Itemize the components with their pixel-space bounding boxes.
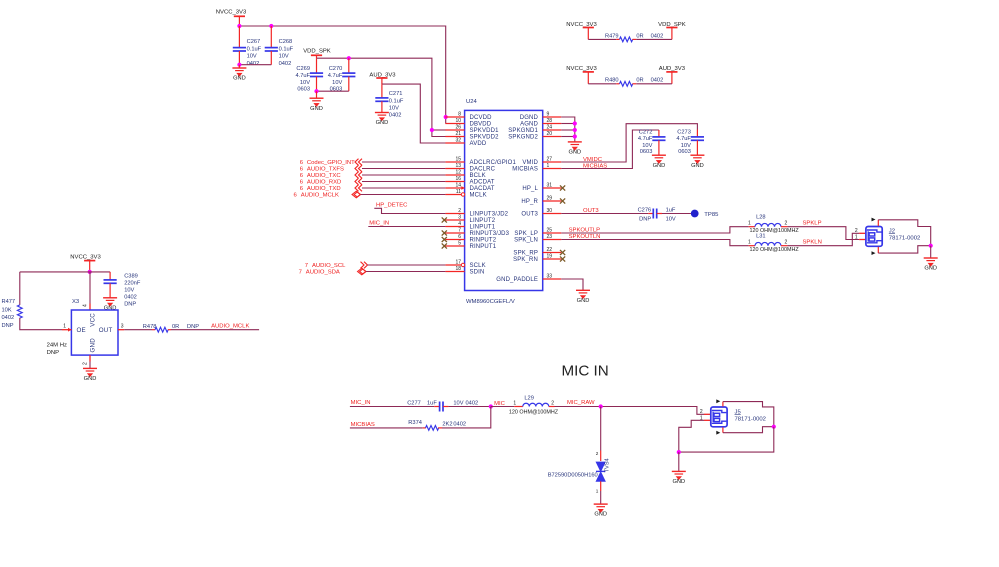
svg-text:8: 8 <box>458 112 461 118</box>
wire TVS4 to ground <box>600 481 602 491</box>
svg-text:0402: 0402 <box>651 33 664 39</box>
J5 shield pin bottom <box>722 427 724 432</box>
svg-text:GND: GND <box>376 120 389 126</box>
ground below X3 <box>89 362 91 369</box>
wire SPKVDD1 tap <box>432 129 446 131</box>
wire J2 shield top to gnd <box>878 220 930 246</box>
U24 pin 5 RINPUT1 <box>445 245 464 247</box>
resistor R478 (0R DNP) <box>124 329 152 331</box>
wire AUD_3V3 to U24 pin 32 <box>382 84 446 143</box>
svg-text:SPKGND1: SPKGND1 <box>508 128 538 134</box>
junction at C267 top <box>237 24 241 28</box>
svg-text:1: 1 <box>513 401 516 407</box>
U24 pin 1 MICBIAS <box>543 168 562 170</box>
J5 shield pin top <box>722 402 724 407</box>
svg-text:R479: R479 <box>605 33 619 39</box>
wire AUDIO_TXC to pin 12 <box>362 174 445 176</box>
junction MIC ground node <box>677 450 681 454</box>
svg-text:120 OHM@100MHZ: 120 OHM@100MHZ <box>750 247 800 253</box>
U24 pin 12 BCLK <box>445 174 464 176</box>
svg-text:GND: GND <box>924 266 937 272</box>
svg-text:R478: R478 <box>143 324 157 330</box>
svg-text:3: 3 <box>121 324 124 330</box>
svg-text:U24: U24 <box>466 99 478 105</box>
wire SPKLP to J2 pin 1 <box>787 227 859 240</box>
svg-text:4.7uF: 4.7uF <box>676 136 691 142</box>
svg-text:GND: GND <box>594 512 607 518</box>
svg-text:SPKVDD1: SPKVDD1 <box>470 128 500 134</box>
U24 pin 6 RINPUT2 <box>445 239 464 241</box>
ground below C267 <box>238 65 240 68</box>
junction at DCVDD pin 8 <box>444 115 448 119</box>
ground below C273 <box>690 155 704 163</box>
svg-text:AUDIO_TXD: AUDIO_TXD <box>307 186 341 192</box>
svg-text:AUDIO_RXD: AUDIO_RXD <box>307 180 341 186</box>
junction J2 shield <box>929 244 933 248</box>
U24 pin 16 ADCDAT <box>445 181 464 183</box>
svg-text:AUDIO_MCLK: AUDIO_MCLK <box>211 323 249 329</box>
junction NVCC_3V3 at X3 VCC <box>88 270 92 274</box>
svg-text:27: 27 <box>547 157 553 163</box>
wire GND_PADDLE to ground <box>561 279 583 290</box>
J2 shield pin top <box>877 220 879 226</box>
svg-text:0402: 0402 <box>389 112 402 118</box>
svg-text:0402: 0402 <box>247 61 260 67</box>
capacitor C269 <box>316 58 318 73</box>
svg-text:AUDIO_SDA: AUDIO_SDA <box>306 270 340 276</box>
svg-text:14: 14 <box>455 183 461 189</box>
U24 pin 26 SPKVDD1 <box>445 129 464 131</box>
svg-text:1: 1 <box>596 489 599 494</box>
wire MIC_IN to pin 4 <box>368 226 445 228</box>
svg-text:33: 33 <box>547 274 553 280</box>
svg-text:6: 6 <box>458 234 461 240</box>
svg-text:10V: 10V <box>279 54 289 60</box>
svg-text:0402: 0402 <box>2 315 15 321</box>
X3 pin 2 GND stub <box>89 355 91 361</box>
svg-text:GND: GND <box>90 338 97 353</box>
svg-text:0.1uF: 0.1uF <box>279 46 294 52</box>
wire VMID to C273 <box>561 124 697 162</box>
svg-text:NVCC_3V3: NVCC_3V3 <box>216 10 247 16</box>
svg-text:C276: C276 <box>638 207 652 213</box>
oscillator X3 body <box>71 310 118 355</box>
op-amp U1 -- IC U24 WM8960 body <box>465 110 543 290</box>
svg-text:2K2: 2K2 <box>442 422 452 428</box>
svg-text:19: 19 <box>547 254 553 260</box>
wire MICBIAS to R374 <box>350 427 423 429</box>
svg-text:0R: 0R <box>636 78 643 84</box>
wire R374 to MIC node <box>442 407 491 428</box>
svg-text:4.7uF: 4.7uF <box>638 136 653 142</box>
wire C277 to MIC node <box>448 406 490 408</box>
wire OUT3 to C276 <box>561 213 648 215</box>
svg-text:7: 7 <box>305 263 308 269</box>
svg-text:4: 4 <box>83 304 89 307</box>
resistor R479 <box>588 38 616 40</box>
svg-text:HP_DETEC: HP_DETEC <box>376 202 408 208</box>
svg-text:0603: 0603 <box>297 86 310 92</box>
svg-text:RINPUT3/JD3: RINPUT3/JD3 <box>470 231 510 237</box>
junction SPKGND2 <box>573 134 577 138</box>
U24 pin 17 SCLK <box>445 264 464 266</box>
U24 pin 2 LINPUT3/JD2 <box>445 213 464 215</box>
svg-text:L28: L28 <box>756 215 766 221</box>
capacitor C267 <box>238 26 240 48</box>
svg-text:1uF: 1uF <box>666 207 676 213</box>
svg-text:7: 7 <box>299 270 302 276</box>
wire X3 VCC pin <box>89 272 91 304</box>
svg-text:SPKLP: SPKLP <box>803 221 822 227</box>
U24 pin 30 OUT3 <box>543 213 562 215</box>
svg-text:0603: 0603 <box>678 149 691 155</box>
junction J5 shield <box>772 425 776 429</box>
svg-text:DNP: DNP <box>639 217 651 223</box>
ground below C271 <box>375 113 389 121</box>
wire down to TVS4 <box>600 407 602 451</box>
wire Codec_GPIO_INT to pin 15 <box>362 161 445 163</box>
svg-text:30: 30 <box>547 208 553 214</box>
resistor R480 <box>588 83 616 85</box>
wire AUDIO_MCLK to pin 11 <box>361 194 446 196</box>
svg-text:0R: 0R <box>636 33 643 39</box>
svg-text:R477: R477 <box>2 299 16 305</box>
svg-text:0402: 0402 <box>453 422 466 428</box>
svg-text:1: 1 <box>748 240 751 246</box>
junction at C269 bottom <box>314 89 318 93</box>
ground for GND_PADDLE <box>576 290 590 298</box>
svg-text:10V: 10V <box>124 287 134 293</box>
wire AUDIO_TXD to pin 14 <box>362 187 445 189</box>
svg-text:120 OHM@100MHZ: 120 OHM@100MHZ <box>509 410 559 416</box>
svg-text:HP_L: HP_L <box>522 186 538 192</box>
junction at SPKVDD1 tap <box>430 128 434 132</box>
U24 pin 27 VMID <box>543 161 562 163</box>
svg-text:2: 2 <box>83 362 89 365</box>
svg-text:RINPUT2: RINPUT2 <box>470 238 497 244</box>
capacitor C273 <box>696 130 698 137</box>
connector J5 78171-0002 <box>704 413 710 415</box>
U24 pin 32 AVDD <box>445 142 464 144</box>
svg-text:10V: 10V <box>389 105 399 111</box>
svg-text:AUDIO_TXFS: AUDIO_TXFS <box>307 167 344 173</box>
svg-text:23: 23 <box>547 234 553 240</box>
U24 pin 10 DBVDD <box>445 123 464 125</box>
svg-text:SPK_LP: SPK_LP <box>514 231 538 237</box>
U24 pin 19 SPK_RN <box>543 258 562 260</box>
svg-text:7: 7 <box>458 228 461 234</box>
svg-text:17: 17 <box>455 260 461 266</box>
svg-text:SDIN: SDIN <box>470 270 485 276</box>
svg-text:GND: GND <box>672 479 685 485</box>
wire shield return to ground node <box>679 427 774 452</box>
svg-text:11: 11 <box>456 189 461 195</box>
svg-text:DNP: DNP <box>187 324 199 330</box>
U24 pin 22 SPK_RP <box>543 252 562 254</box>
svg-text:GND: GND <box>577 298 590 304</box>
junction SPKGND1 <box>573 128 577 132</box>
svg-text:5: 5 <box>458 241 461 247</box>
svg-text:C273: C273 <box>677 129 691 135</box>
svg-text:AUDIO_SCL: AUDIO_SCL <box>312 263 346 269</box>
svg-text:SPKLN: SPKLN <box>803 240 822 246</box>
svg-text:10: 10 <box>455 118 461 124</box>
svg-text:DBVDD: DBVDD <box>470 122 492 128</box>
svg-text:AUDIO_MCLK: AUDIO_MCLK <box>301 193 339 199</box>
svg-text:10V: 10V <box>681 143 691 149</box>
svg-text:DACLRC: DACLRC <box>470 167 496 173</box>
svg-text:VMID: VMID <box>522 160 538 166</box>
wire MIC_RAW to J5 <box>555 407 705 415</box>
svg-text:LINPUT3/JD2: LINPUT3/JD2 <box>470 212 509 218</box>
svg-text:TVS4: TVS4 <box>604 458 610 472</box>
U24 pin 28 AGND <box>543 123 562 125</box>
wire MICBIAS to C272 <box>561 130 659 169</box>
U24 pin 31 HP_L <box>543 187 562 189</box>
wire SPKOUTLP to L28 <box>561 227 748 233</box>
svg-text:SPKVDD2: SPKVDD2 <box>470 135 500 141</box>
red dot pin 14 <box>461 186 464 190</box>
svg-text:J5: J5 <box>735 409 742 415</box>
svg-text:GND: GND <box>568 150 581 156</box>
svg-text:MCLK: MCLK <box>470 193 487 199</box>
wire NVCC_3V3 rail to U24 pin 8/10 <box>239 26 445 124</box>
ground for J5 <box>678 452 680 471</box>
ground below C389 <box>103 298 117 306</box>
svg-text:ADCDAT: ADCDAT <box>470 180 495 186</box>
inductor L28 <box>749 226 755 228</box>
svg-text:2: 2 <box>458 208 461 214</box>
wire J2 shield bottom to gnd <box>878 246 930 253</box>
svg-text:2: 2 <box>700 409 703 415</box>
TVS diode TVS4 B72590D0050H160 <box>596 462 605 481</box>
wire NVCC rail at X3 <box>20 271 110 273</box>
svg-text:C267: C267 <box>247 39 261 45</box>
svg-text:26: 26 <box>455 125 461 131</box>
svg-text:1: 1 <box>748 221 751 227</box>
clock circle pin 11 MCLK <box>461 193 464 196</box>
svg-text:R374: R374 <box>408 420 422 426</box>
svg-text:28: 28 <box>547 118 553 124</box>
capacitor C272 <box>658 130 660 137</box>
svg-text:22: 22 <box>547 247 553 253</box>
junction at C270 top <box>347 56 351 60</box>
wire J5 shield bottom to junction <box>723 427 774 433</box>
svg-text:GND: GND <box>233 76 246 82</box>
svg-text:SPK_RP: SPK_RP <box>513 251 538 257</box>
wire SPKOUTLN to L31 <box>561 240 748 246</box>
wire SPKLN to J2 pin 2 <box>787 233 859 245</box>
svg-text:2: 2 <box>855 228 858 234</box>
svg-text:AGND: AGND <box>520 122 538 128</box>
svg-text:0402: 0402 <box>651 78 664 84</box>
svg-text:10V: 10V <box>642 143 652 149</box>
U24 pin 14 DACDAT <box>445 187 464 189</box>
svg-text:0402: 0402 <box>466 401 479 407</box>
capacitor C268 <box>270 26 272 48</box>
junction at C267 bottom <box>237 63 241 67</box>
svg-text:X3: X3 <box>72 299 80 305</box>
U24 pin 23 SPK_LN <box>543 239 562 241</box>
wire C270 bottom to C269 bottom <box>317 90 349 92</box>
X3 pin 3 OUT stub <box>118 329 124 331</box>
U24 pin 8 DCVDD <box>445 116 464 118</box>
svg-text:R480: R480 <box>605 78 619 84</box>
svg-text:15: 15 <box>455 157 461 163</box>
U24 pin 33 GND_PADDLE <box>543 278 562 280</box>
wire AUDIO_RXD to pin 16 <box>362 181 445 183</box>
svg-text:BCLK: BCLK <box>470 173 486 179</box>
wire AUDIO_SDA to pin 18 <box>366 271 445 273</box>
svg-text:C268: C268 <box>279 39 293 45</box>
svg-text:C389: C389 <box>124 273 138 279</box>
ground for J2 shield <box>930 246 932 258</box>
svg-text:ADCLRC/GPIO1: ADCLRC/GPIO1 <box>470 160 517 166</box>
svg-text:TP85: TP85 <box>704 212 719 218</box>
svg-text:2: 2 <box>785 221 788 227</box>
svg-text:0.1uF: 0.1uF <box>389 98 404 104</box>
svg-text:LINPUT1: LINPUT1 <box>470 225 496 231</box>
U24 pin 7 RINPUT3/JD3 <box>445 232 464 234</box>
U24 pin 3 LINPUT2 <box>445 219 464 221</box>
svg-text:OUT3: OUT3 <box>521 212 538 218</box>
wire C268 bottom to C267 bottom <box>239 64 271 66</box>
svg-text:31: 31 <box>547 183 553 189</box>
capacitor C277 <box>434 406 439 408</box>
svg-text:SPK_LN: SPK_LN <box>514 238 538 244</box>
U24 pin 20 SPKGND2 <box>543 136 562 138</box>
svg-text:AVDD: AVDD <box>470 141 487 147</box>
svg-text:OE: OE <box>77 327 86 334</box>
svg-text:DGND: DGND <box>520 115 539 121</box>
svg-text:78171-0002: 78171-0002 <box>735 416 766 422</box>
svg-text:C271: C271 <box>389 91 403 97</box>
svg-text:L29: L29 <box>524 396 534 402</box>
wire VDD_SPK to U24 pins 26/21 <box>317 58 446 136</box>
wire AUDIO_SCL to pin 17 <box>368 264 446 266</box>
svg-text:32: 32 <box>455 138 461 144</box>
svg-text:C269: C269 <box>296 66 310 72</box>
X3 pin 1 OE stub <box>62 329 71 331</box>
connector J2 78171-0002 <box>859 232 865 234</box>
svg-text:J2: J2 <box>889 228 895 234</box>
svg-text:0603: 0603 <box>640 149 653 155</box>
svg-text:SPKGND2: SPKGND2 <box>508 135 538 141</box>
svg-text:9: 9 <box>547 112 550 118</box>
svg-text:29: 29 <box>547 196 553 202</box>
svg-text:10V: 10V <box>453 401 463 407</box>
svg-text:MIC_IN: MIC_IN <box>351 400 371 406</box>
svg-text:3: 3 <box>458 215 461 221</box>
svg-text:GND: GND <box>653 163 666 169</box>
svg-text:1: 1 <box>547 163 550 169</box>
svg-text:AUDIO_TXC: AUDIO_TXC <box>307 173 341 179</box>
svg-text:MIC_RAW: MIC_RAW <box>567 400 595 406</box>
svg-text:220nF: 220nF <box>124 280 141 286</box>
svg-text:10V: 10V <box>332 80 342 86</box>
inductor L31 <box>749 245 755 247</box>
svg-text:DNP: DNP <box>47 350 60 356</box>
svg-text:MICBIAS: MICBIAS <box>512 167 538 173</box>
U24 pin 13 DACLRC <box>445 168 464 170</box>
svg-text:HP_R: HP_R <box>521 199 538 205</box>
svg-text:SCLK: SCLK <box>470 263 486 269</box>
junction MIC node <box>489 404 493 408</box>
capacitor C270 <box>348 58 350 73</box>
svg-text:SPK_RN: SPK_RN <box>513 257 538 263</box>
ground below C272 <box>652 155 666 163</box>
svg-text:2: 2 <box>596 451 599 456</box>
wire MIC_IN to C277 <box>350 406 434 408</box>
svg-text:MICBIAS: MICBIAS <box>351 422 375 428</box>
capacitor C271 <box>381 84 383 98</box>
svg-text:0402: 0402 <box>279 61 292 67</box>
svg-text:0402: 0402 <box>124 294 137 300</box>
svg-text:B72590D0050H160: B72590D0050H160 <box>548 472 598 478</box>
wire AUDIO_MCLK out <box>171 329 259 331</box>
svg-text:OUT: OUT <box>99 327 113 334</box>
U24 pin 9 DGND <box>543 116 562 118</box>
svg-text:2: 2 <box>551 401 554 407</box>
svg-text:10V: 10V <box>300 80 310 86</box>
clock circle pin 17 SCLK <box>461 263 464 266</box>
resistor R374 <box>423 427 426 429</box>
svg-text:VCC: VCC <box>90 313 97 327</box>
U24 pin 15 ADCLRC/GPIO1 <box>445 161 464 163</box>
wire J5 pin 1 to ground node <box>679 420 704 452</box>
svg-text:VDD_SPK: VDD_SPK <box>303 48 331 54</box>
svg-text:RINPUT1: RINPUT1 <box>470 244 497 250</box>
svg-text:10V: 10V <box>247 54 257 60</box>
wire MIC to L29 <box>491 406 515 408</box>
svg-text:16: 16 <box>455 176 461 182</box>
svg-text:2: 2 <box>785 240 788 246</box>
svg-text:LINPUT2: LINPUT2 <box>470 218 496 224</box>
svg-text:13: 13 <box>455 163 461 169</box>
ground below C269 <box>316 91 318 98</box>
resistor R477 (DNP) <box>17 305 22 318</box>
svg-text:4.7uF: 4.7uF <box>295 73 310 79</box>
junction at C268 top <box>269 24 273 28</box>
svg-text:1: 1 <box>855 234 858 240</box>
U24 pin 24 SPKGND1 <box>543 129 562 131</box>
wire to R477 <box>19 272 21 305</box>
svg-text:0R: 0R <box>172 324 179 330</box>
U24 pin 11 MCLK <box>445 194 464 196</box>
svg-text:78171-0002: 78171-0002 <box>889 235 920 241</box>
ground below TVS4 <box>594 504 608 512</box>
J2 shield pin bottom <box>877 247 879 253</box>
svg-text:25: 25 <box>547 228 553 234</box>
U24 pin 29 HP_R <box>543 200 562 202</box>
wire C276 to TP85 <box>662 213 691 215</box>
capacitor C276 (DNP) <box>648 213 653 215</box>
svg-text:18: 18 <box>455 266 461 272</box>
svg-text:GND_PADDLE: GND_PADDLE <box>496 277 538 283</box>
svg-text:C270: C270 <box>329 66 343 72</box>
svg-text:DCVDD: DCVDD <box>470 115 493 121</box>
svg-text:10V: 10V <box>666 217 676 223</box>
svg-text:1uF: 1uF <box>427 401 437 407</box>
svg-text:1: 1 <box>63 324 66 330</box>
svg-text:GND: GND <box>310 106 323 112</box>
test point TP85 <box>691 210 699 218</box>
junction MIC_RAW / TVS <box>599 404 603 408</box>
U24 pin 4 LINPUT1 <box>445 226 464 228</box>
U24 pin 25 SPK_LP <box>543 232 562 234</box>
svg-text:0.1uF: 0.1uF <box>247 46 262 52</box>
ground for DGND rail <box>568 142 582 150</box>
